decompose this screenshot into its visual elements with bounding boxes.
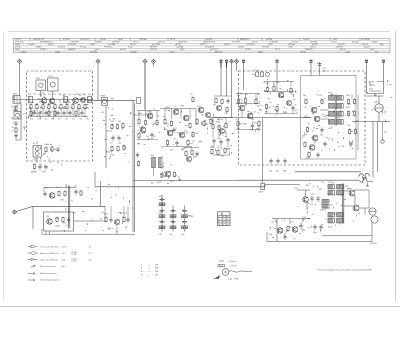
resistor R31c xyxy=(226,107,228,108)
transformer T3 core xyxy=(342,184,344,224)
resistor R41 xyxy=(245,98,247,99)
wire B1 down xyxy=(220,62,222,67)
resistor R26 xyxy=(164,119,166,120)
svg-text:6n: 6n xyxy=(14,96,16,98)
svg-text:593: 593 xyxy=(118,121,121,123)
resistor R6 xyxy=(48,104,50,105)
svg-text:TF778nM: TF778nM xyxy=(361,39,370,41)
svg-text:M9: M9 xyxy=(101,212,103,214)
resistor xyxy=(75,110,77,111)
resistor xyxy=(48,110,50,111)
wire right col xyxy=(351,95,353,99)
resistor R28 xyxy=(189,123,191,124)
terminal B5 xyxy=(242,60,244,62)
capacitor C20 xyxy=(252,124,254,126)
resistor R35 xyxy=(217,150,219,151)
legend symbol row 6 - arrow3 xyxy=(28,279,31,281)
svg-text:FC7pp: FC7pp xyxy=(80,47,87,49)
svg-text:399: 399 xyxy=(51,103,54,105)
transistor TS12b xyxy=(187,157,192,162)
svg-text:2C0: 2C0 xyxy=(348,104,351,106)
wire x100 vertical xyxy=(100,181,102,206)
svg-text:54T: 54T xyxy=(332,182,335,184)
terminal A4 xyxy=(151,59,155,63)
resistor R30 xyxy=(187,140,189,141)
wire left riser2 xyxy=(32,206,34,229)
resistor R23 xyxy=(145,120,147,121)
capacitor C30 xyxy=(311,196,313,198)
terminal B4 xyxy=(234,59,238,63)
resistor R28c xyxy=(203,121,205,122)
svg-text:4T: 4T xyxy=(34,108,36,110)
transistor TS16 xyxy=(287,101,292,106)
svg-text:50MR7F: 50MR7F xyxy=(305,49,313,51)
wire supply links xyxy=(104,206,106,221)
texture IF2 xyxy=(287,80,289,82)
svg-text:p39: p39 xyxy=(182,234,185,236)
svg-text:k89: k89 xyxy=(137,144,140,146)
filter can F2 xyxy=(48,78,59,91)
svg-text:kp7: kp7 xyxy=(185,125,188,127)
wire R2 xyxy=(264,91,294,93)
title block table xyxy=(14,38,391,53)
transistor TS9 xyxy=(167,130,173,136)
svg-text:FT: FT xyxy=(12,131,14,133)
oscillator can F3 xyxy=(33,146,42,158)
capacitor C14 xyxy=(151,133,153,135)
resistor R10 xyxy=(72,104,74,105)
wire E1 down xyxy=(366,62,368,93)
svg-text:L 27048: L 27048 xyxy=(71,254,77,256)
legend symbol row 5 - arrow2 xyxy=(28,273,31,275)
svg-text:C73: C73 xyxy=(227,149,230,151)
svg-text:F4: F4 xyxy=(70,108,72,110)
capacitor C24 xyxy=(284,159,286,161)
resistor R53 xyxy=(304,142,306,143)
speaker LS1 xyxy=(369,208,376,215)
svg-text:n9R2: n9R2 xyxy=(147,112,151,114)
svg-text:p258R5: p258R5 xyxy=(90,52,98,54)
oscillator coil L3 xyxy=(152,158,156,168)
svg-text:47: 47 xyxy=(295,92,297,94)
svg-text:= 150 pF: = 150 pF xyxy=(229,266,237,268)
capacitor C32 xyxy=(284,235,286,237)
svg-text:FR6: FR6 xyxy=(304,116,307,118)
capacitor xyxy=(33,111,35,113)
capacitor xyxy=(69,111,71,113)
pickup terminal xyxy=(12,210,16,214)
resistor R25 xyxy=(138,133,140,134)
svg-text:CC4: CC4 xyxy=(321,182,324,184)
svg-text:TRk: TRk xyxy=(244,124,247,126)
svg-text:RT5: RT5 xyxy=(48,94,51,96)
resistor R1 xyxy=(15,106,17,107)
wire RF ground rail xyxy=(29,116,88,118)
capacitor C33 xyxy=(300,224,302,226)
wire RF drops xyxy=(30,110,32,117)
wire M1 left rail xyxy=(133,114,148,116)
capacitor xyxy=(57,111,59,113)
wire left riser xyxy=(12,96,14,100)
FM dipole stub xyxy=(319,62,321,76)
svg-text:34M4: 34M4 xyxy=(320,210,325,212)
svg-text:707: 707 xyxy=(190,94,193,96)
texture osc lower xyxy=(54,148,56,150)
page edge left xyxy=(3,31,5,300)
tuning gang verticals xyxy=(67,186,69,229)
svg-text:M62: M62 xyxy=(302,135,305,137)
svg-text:p1p: p1p xyxy=(88,94,91,96)
transistor TS11 xyxy=(220,129,225,134)
svg-text:k9k: k9k xyxy=(170,234,173,236)
wire B2 down xyxy=(226,62,228,67)
svg-text:MW: MW xyxy=(155,268,159,270)
wire audio left vertical xyxy=(266,232,268,242)
svg-text:026: 026 xyxy=(341,194,344,196)
svg-text:34T: 34T xyxy=(159,196,162,198)
svg-text:L 17048: L 17048 xyxy=(71,252,77,254)
svg-text:3T: 3T xyxy=(239,99,241,101)
wire AF bus right xyxy=(265,184,300,186)
svg-text:FTp: FTp xyxy=(30,118,33,120)
capacitor C12 xyxy=(112,136,114,138)
svg-text:14: 14 xyxy=(325,219,327,221)
svg-text:nF: nF xyxy=(147,138,149,140)
svg-text:83: 83 xyxy=(337,142,339,144)
wire RF mid verticals xyxy=(43,102,45,104)
svg-text:1T6: 1T6 xyxy=(163,176,166,178)
svg-text:kT5RT: kT5RT xyxy=(245,49,252,51)
terminal A2 xyxy=(96,59,100,63)
svg-text:075n2p: 075n2p xyxy=(352,42,360,44)
capacitor xyxy=(81,111,83,113)
wire AGC bus xyxy=(133,180,237,182)
svg-text:4T: 4T xyxy=(325,115,327,117)
resistor R37 xyxy=(174,172,176,173)
svg-text:08: 08 xyxy=(258,106,260,108)
wire M2 drops xyxy=(164,109,166,120)
resistor R27 xyxy=(171,121,173,122)
svg-text:287: 287 xyxy=(274,220,277,222)
wire rail y180 xyxy=(237,179,360,181)
capacitor C35 xyxy=(68,218,70,220)
svg-text:CRRpF: CRRpF xyxy=(130,52,137,54)
resistor R8 xyxy=(60,104,62,105)
svg-text:7T8R7: 7T8R7 xyxy=(40,49,47,51)
svg-text:Mpk: Mpk xyxy=(380,44,384,46)
resistor R51 xyxy=(321,99,323,100)
svg-text:MF: MF xyxy=(245,105,247,107)
svg-text:pnF: pnF xyxy=(184,148,187,150)
svg-text:96: 96 xyxy=(339,223,341,225)
svg-text:241: 241 xyxy=(34,105,37,107)
svg-text:9C3T3M: 9C3T3M xyxy=(232,42,240,44)
svg-text:5k: 5k xyxy=(104,124,106,126)
wire bus mid xyxy=(88,100,135,102)
svg-text:T6: T6 xyxy=(115,194,117,196)
terminal small circle xyxy=(381,140,384,143)
wire M1 lower rail xyxy=(137,139,158,141)
svg-text:9Mk: 9Mk xyxy=(250,130,253,132)
wire bottom long xyxy=(42,233,135,235)
wire AF bus left stub xyxy=(94,172,96,187)
svg-text:FCR1: FCR1 xyxy=(328,93,333,95)
svg-text:78: 78 xyxy=(227,222,229,224)
svg-text:043: 043 xyxy=(23,127,26,129)
svg-text:80: 80 xyxy=(251,112,253,114)
svg-text:C5: C5 xyxy=(218,127,220,129)
svg-text:5F: 5F xyxy=(64,106,66,108)
svg-text:1 W: 1 W xyxy=(62,253,65,255)
svg-text:F3: F3 xyxy=(223,217,225,219)
capacitor C31 xyxy=(317,196,319,198)
capacitor C13b xyxy=(137,153,139,155)
svg-text:2M2: 2M2 xyxy=(215,121,218,123)
IF transformer T1 xyxy=(329,96,335,101)
svg-text:n36: n36 xyxy=(311,194,314,196)
resistor R61 xyxy=(287,226,289,227)
transistor TS19 xyxy=(312,135,318,141)
resistor R37c xyxy=(191,150,193,151)
svg-text:7T: 7T xyxy=(44,97,46,99)
capacitor C15 xyxy=(176,141,178,143)
transistor TS25 xyxy=(292,227,298,233)
mixer coil L1 xyxy=(29,96,33,102)
resistor R55 xyxy=(354,99,356,100)
capacitor C26 xyxy=(324,142,326,144)
resistor R28d xyxy=(210,119,212,120)
svg-text:MF: MF xyxy=(295,110,297,112)
transistor TS11a xyxy=(216,105,221,110)
resistor R49 xyxy=(276,106,278,107)
svg-text:3M1k0: 3M1k0 xyxy=(238,47,245,49)
svg-text:B 8234: B 8234 xyxy=(371,243,377,245)
capacitor C1 xyxy=(14,112,21,120)
svg-text:87F7: 87F7 xyxy=(36,78,40,80)
svg-text:n8RR: n8RR xyxy=(90,44,96,46)
svg-text:040T5: 040T5 xyxy=(120,49,127,51)
resistor R42 xyxy=(255,99,257,100)
resistor R24 xyxy=(156,120,158,121)
resistor R21b xyxy=(138,161,140,162)
wire motor stem xyxy=(378,96,380,104)
wire M2 low rail xyxy=(163,146,192,148)
resistor R36 xyxy=(224,148,226,149)
svg-text:T7: T7 xyxy=(386,85,388,87)
wire rail y172 xyxy=(295,171,361,173)
waveband switch SK1 column 2 xyxy=(172,206,174,232)
svg-text:n9T: n9T xyxy=(58,118,61,120)
svg-text:RnM: RnM xyxy=(139,127,143,129)
svg-text:1p5: 1p5 xyxy=(118,143,121,145)
wire feeds xyxy=(372,122,374,178)
svg-text:3RT: 3RT xyxy=(252,119,255,121)
capacitor C19b xyxy=(196,152,198,154)
resistor R58 xyxy=(349,129,351,130)
svg-text:M9: M9 xyxy=(268,99,270,101)
svg-text:560n: 560n xyxy=(313,232,317,234)
resistor R43 xyxy=(237,121,239,122)
resistor R37b xyxy=(185,151,187,152)
wire IF bus xyxy=(213,117,311,119)
transistor TS22 output xyxy=(349,190,355,196)
wire jack to rail xyxy=(370,180,373,182)
dial cord arrow xyxy=(215,275,221,278)
wire audio bottom xyxy=(267,241,372,243)
transistor TS7 xyxy=(173,109,179,115)
wire M3 drops xyxy=(212,118,214,124)
svg-text:The circuit diagram lay-out ha: The circuit diagram lay-out has been dra… xyxy=(318,269,372,272)
legend symbol row 1 - wiper contact xyxy=(28,246,32,248)
resistor R16 xyxy=(111,124,113,125)
transistor TS26 xyxy=(47,219,53,225)
wire A3 down xyxy=(144,63,146,109)
terminal B1 xyxy=(220,60,222,62)
svg-text:75: 75 xyxy=(302,232,304,234)
svg-text:84n: 84n xyxy=(384,132,387,134)
texture osc xyxy=(161,155,164,158)
resistor R60 hatched xyxy=(322,200,329,204)
svg-text:4FFp7: 4FFp7 xyxy=(48,44,55,46)
antenna input transformer S1 xyxy=(13,96,20,104)
svg-text:M2: M2 xyxy=(43,154,45,156)
resistor R28a0 xyxy=(192,97,194,98)
wire inner links xyxy=(303,117,311,119)
svg-text:845: 845 xyxy=(196,133,199,135)
resistor R17 xyxy=(117,124,119,125)
svg-text:0MT: 0MT xyxy=(283,171,286,173)
svg-text:C9T: C9T xyxy=(82,94,85,96)
dial cord drawing xyxy=(222,269,229,276)
svg-text:T54: T54 xyxy=(44,118,47,120)
terminal B3 xyxy=(230,59,234,63)
trimmer C5 xyxy=(88,97,92,103)
svg-text:L 27049: L 27049 xyxy=(71,261,77,263)
wire detector to volume xyxy=(262,118,264,184)
svg-text:9T8k: 9T8k xyxy=(180,105,184,107)
resistor R22 xyxy=(138,119,140,120)
svg-text:LW: LW xyxy=(155,264,158,266)
page edge right xyxy=(395,31,397,301)
shield box RF tuner (dashed) xyxy=(27,71,93,161)
svg-text:MF: MF xyxy=(58,108,60,110)
shield box IF amplifier (dashed) xyxy=(239,71,366,165)
wire AF in xyxy=(297,189,310,191)
svg-text:73198: 73198 xyxy=(300,52,306,54)
svg-text:p0: p0 xyxy=(301,229,303,231)
wire A2 down xyxy=(97,63,99,100)
texture power xyxy=(366,91,368,93)
capacitor C25 xyxy=(321,128,323,130)
wire M1 drops xyxy=(138,111,140,119)
svg-text:765: 765 xyxy=(162,166,165,168)
resistor R9 xyxy=(66,104,68,105)
svg-text:9M8: 9M8 xyxy=(337,117,340,119)
svg-text:90T: 90T xyxy=(68,112,71,114)
wire mains joins xyxy=(367,93,384,95)
wire R2 rails xyxy=(264,81,294,83)
wire box out xyxy=(74,220,106,222)
svg-text:R9F: R9F xyxy=(181,150,184,152)
capacitor C18 xyxy=(227,138,229,140)
resistor R52 xyxy=(307,127,309,128)
svg-text:M3: M3 xyxy=(218,135,220,137)
wire M2 bus xyxy=(160,108,196,110)
svg-text:M20R: M20R xyxy=(120,213,125,215)
resistor R19 xyxy=(111,146,113,147)
resistor R31 xyxy=(212,124,214,125)
svg-text:KW: KW xyxy=(155,271,158,273)
transistor TS24 xyxy=(277,228,283,234)
svg-text:9M9T2: 9M9T2 xyxy=(224,44,231,46)
resistor R31b xyxy=(221,99,223,100)
svg-text:nR6M: nR6M xyxy=(100,96,105,98)
wire D1 down xyxy=(310,62,312,75)
svg-text:6R1: 6R1 xyxy=(266,83,269,85)
svg-text:Tp1: Tp1 xyxy=(68,94,71,96)
svg-text:39T: 39T xyxy=(23,113,26,115)
svg-text:FMMR97: FMMR97 xyxy=(68,49,77,51)
wire vertical mid frame left xyxy=(105,105,107,168)
svg-text:GR: GR xyxy=(155,275,159,277)
svg-text:F0: F0 xyxy=(153,108,155,110)
svg-text:67: 67 xyxy=(12,99,14,101)
svg-text:T748: T748 xyxy=(189,216,193,218)
svg-text:F3T: F3T xyxy=(213,105,216,107)
svg-text:434943p: 434943p xyxy=(68,44,77,46)
svg-text:n3: n3 xyxy=(227,219,229,221)
svg-text:9C3R: 9C3R xyxy=(44,188,49,190)
resistor xyxy=(30,110,32,111)
resistor R65 xyxy=(62,217,64,218)
svg-text:6k: 6k xyxy=(188,120,190,122)
wire vol tap xyxy=(264,185,266,187)
svg-text:T8: T8 xyxy=(87,97,89,99)
transistor TS2 xyxy=(49,98,55,104)
waveband switch SK1 column 3 xyxy=(184,206,186,232)
IF can F4 xyxy=(102,98,108,106)
wire main RF bus xyxy=(13,99,93,101)
transistor TS21 driver xyxy=(303,197,309,203)
svg-text:RT9: RT9 xyxy=(265,112,268,114)
resistor R54 xyxy=(348,99,350,100)
svg-text:220V: 220V xyxy=(369,82,375,84)
svg-text:40 W: 40 W xyxy=(62,259,66,261)
coupling coil L2 xyxy=(64,97,68,103)
resistor R34 xyxy=(211,149,213,150)
svg-text:R3p81: R3p81 xyxy=(372,42,379,44)
svg-text:kM3: kM3 xyxy=(176,133,179,135)
capacitor C10 xyxy=(39,165,41,167)
svg-text:Cp: Cp xyxy=(33,110,35,112)
svg-text:115: 115 xyxy=(178,176,181,178)
wire osc2 xyxy=(183,147,199,149)
wire B4 down xyxy=(236,63,238,71)
capacitor C9 xyxy=(57,147,59,149)
wire B3 down xyxy=(231,63,233,117)
svg-text:n2: n2 xyxy=(79,114,81,116)
mains transformer/motor M1 xyxy=(375,104,383,112)
legend symbol row 4 - adjust arrow xyxy=(31,265,36,267)
svg-text:81p: 81p xyxy=(237,95,240,97)
svg-text:20: 20 xyxy=(112,109,114,111)
AF preamp cluster xyxy=(49,193,55,199)
svg-text:Rn: Rn xyxy=(80,108,82,110)
svg-text:11p: 11p xyxy=(276,171,279,173)
wire R1 rails xyxy=(236,93,260,95)
svg-text:p8: p8 xyxy=(254,112,256,114)
capacitor C11 xyxy=(45,165,47,167)
